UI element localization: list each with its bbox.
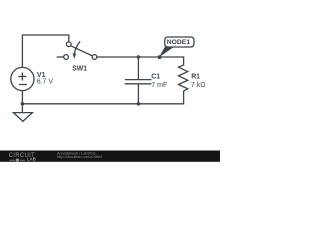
junction dot at C1 bottom xyxy=(137,102,141,106)
watermark bar xyxy=(0,151,220,162)
svg-text:C1: C1 xyxy=(151,73,160,80)
capacitor C1 xyxy=(125,57,152,104)
switch SW1 xyxy=(57,41,97,59)
resistor R1 xyxy=(179,57,188,104)
junction dot at C1 top xyxy=(137,55,141,59)
voltage source V1 xyxy=(11,67,34,90)
svg-text:R1: R1 xyxy=(191,73,200,80)
wire top-left xyxy=(22,35,68,67)
wire V1 bottom lead xyxy=(21,91,24,104)
svg-text:7 mF: 7 mF xyxy=(151,82,167,89)
svg-text:NODE1: NODE1 xyxy=(167,39,191,46)
svg-text:7 kΩ: 7 kΩ xyxy=(191,82,206,89)
junction dot at V1/ground xyxy=(21,102,25,106)
svg-text:http://circuitlab.com/c/48e3: http://circuitlab.com/c/48e3 xyxy=(57,155,102,159)
svg-text:SW1: SW1 xyxy=(72,66,87,73)
CircuitLab logo underline marks xyxy=(10,159,26,161)
svg-text:LAB: LAB xyxy=(27,157,36,162)
wire middle rail xyxy=(97,56,184,59)
node NODE1 flag xyxy=(158,37,194,59)
wire bottom rail xyxy=(22,103,183,106)
ground xyxy=(13,104,32,122)
svg-text:6.7 V: 6.7 V xyxy=(37,78,54,85)
